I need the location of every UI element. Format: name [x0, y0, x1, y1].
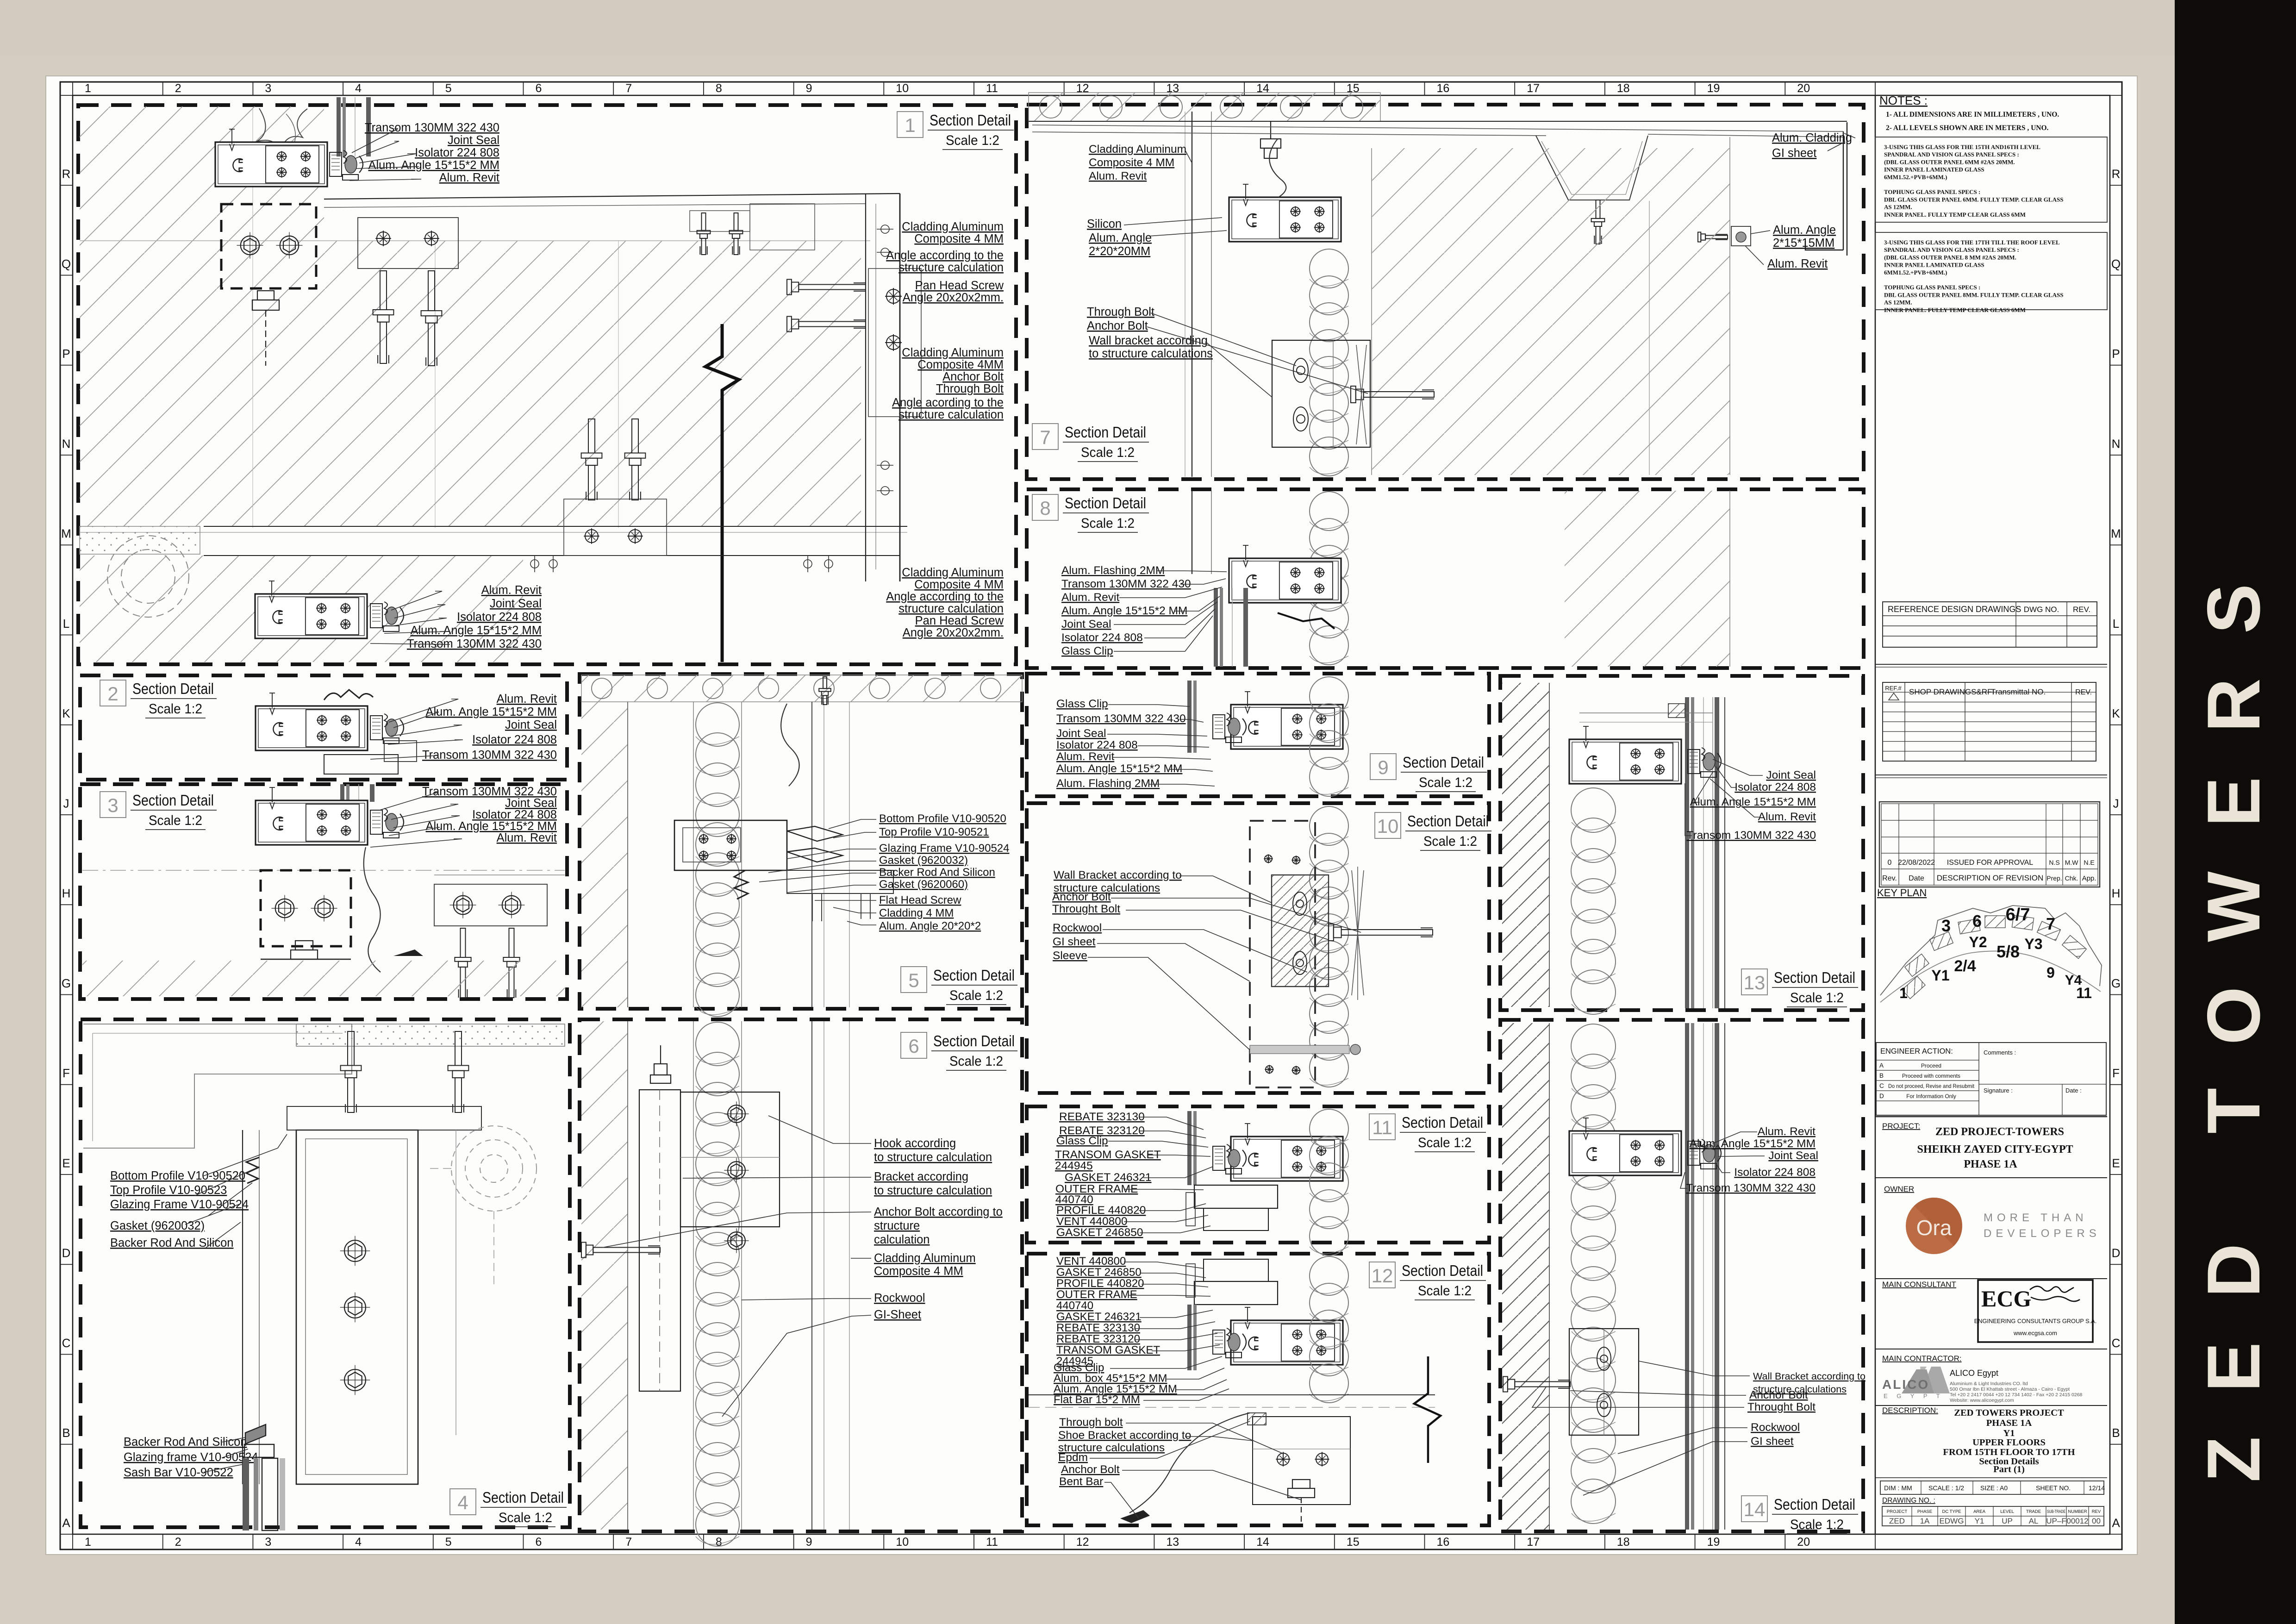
box12 floor lines	[1029, 1394, 1435, 1395]
svg-text:GI-Sheet: GI-Sheet	[874, 1308, 921, 1321]
box7 hanging bolt top	[1260, 121, 1281, 158]
svg-text:EDWG: EDWG	[1940, 1517, 1964, 1525]
box4 bottom sash cluster	[244, 1424, 274, 1457]
svg-text:Transom 130MM 322 430: Transom 130MM 322 430	[1686, 1182, 1816, 1194]
detail label 5	[901, 967, 1017, 1005]
box7 mullion	[1229, 184, 1341, 242]
box10 labels a	[1054, 869, 1182, 894]
svg-text:Gasket (9620032): Gasket (9620032)	[110, 1219, 205, 1232]
svg-text:7: 7	[625, 1536, 632, 1549]
svg-text:ENGINEERING CONSULTANTS GROUP: ENGINEERING CONSULTANTS GROUP S.A.	[1974, 1318, 2097, 1324]
svg-text:18: 18	[1617, 82, 1630, 95]
svg-text:6: 6	[536, 82, 542, 95]
box4 hex bolts	[340, 1236, 370, 1266]
box11 lbl b	[1056, 1135, 1108, 1147]
svg-text:Isolator 224 808: Isolator 224 808	[1734, 1166, 1816, 1179]
svg-text:Flat Bar 15*2 MM: Flat Bar 15*2 MM	[1054, 1393, 1140, 1406]
svg-text:1: 1	[1899, 985, 1908, 1001]
box14 rockwool	[1571, 1024, 1616, 1524]
svg-text:Cladding Aluminum: Cladding Aluminum	[902, 566, 1004, 579]
box3 wire curve	[364, 847, 381, 972]
svg-text:10: 10	[896, 82, 909, 95]
svg-text:Section Detail: Section Detail	[933, 967, 1015, 984]
box7 top slab band	[1029, 93, 1380, 121]
svg-text:6: 6	[1972, 912, 1982, 931]
box6 label gisheet	[874, 1308, 921, 1321]
svg-text:Alum. Revit: Alum. Revit	[1061, 591, 1119, 604]
box7 silicon	[1087, 218, 1122, 231]
box14 bracket	[1569, 1329, 1639, 1435]
svg-text:structure: structure	[874, 1219, 920, 1232]
detail label 3	[100, 792, 217, 830]
svg-text:structure calculation: structure calculation	[898, 408, 1004, 421]
svg-text:5: 5	[445, 1536, 452, 1549]
svg-text:Scale 1:2: Scale 1:2	[149, 813, 202, 828]
reference design drawings table	[1883, 602, 2097, 647]
svg-text:14: 14	[1256, 1536, 1269, 1549]
box6 left wall hatch	[581, 1021, 628, 1530]
box1 right pan head screws	[787, 280, 866, 295]
box9 labels a	[1056, 698, 1186, 725]
box11 lbl d	[1065, 1171, 1152, 1184]
box1 bottom labels	[407, 584, 542, 650]
svg-text:R: R	[62, 167, 71, 181]
box3 labels	[422, 785, 557, 844]
svg-text:REBATE 323130: REBATE 323130	[1056, 1322, 1140, 1334]
box13 glazing verticals	[1685, 697, 1719, 1008]
box1 dashed circle	[107, 536, 189, 617]
svg-text:Section Detail: Section Detail	[930, 112, 1011, 129]
box13 lbl e	[1686, 829, 1816, 842]
svg-text:Hook according: Hook according	[874, 1137, 956, 1150]
svg-text:KEY PLAN: KEY PLAN	[1877, 887, 1927, 899]
box8 labels	[1061, 564, 1191, 657]
box12 lower b	[1058, 1429, 1191, 1454]
box12 lower a	[1059, 1416, 1123, 1429]
info strip DIM/SCALE/SIZE	[1880, 1481, 2105, 1494]
svg-text:Wall Bracket according to: Wall Bracket according to	[1753, 1371, 1865, 1382]
box14 lower e	[1751, 1435, 1794, 1448]
svg-text:to structure calculation: to structure calculation	[874, 1184, 992, 1197]
box14 glazing verticals	[1685, 1023, 1719, 1530]
svg-text:Ora: Ora	[1916, 1216, 1952, 1240]
svg-text:PHASE 1A: PHASE 1A	[1986, 1418, 2032, 1428]
svg-text:Joint Seal: Joint Seal	[448, 134, 499, 147]
svg-text:Transom 130MM 322 430: Transom 130MM 322 430	[1056, 712, 1186, 725]
svg-text:15: 15	[1347, 1536, 1360, 1549]
svg-text:TRANSOM GASKET: TRANSOM GASKET	[1055, 1149, 1161, 1161]
svg-text:Transom 130MM 322 430: Transom 130MM 322 430	[1686, 829, 1816, 842]
glass spec text 2	[1884, 239, 2063, 313]
svg-text:3-USING THIS GLASS FOR THE 15T: 3-USING THIS GLASS FOR THE 15TH AND16TH …	[1884, 144, 2040, 150]
svg-text:Scale 1:2: Scale 1:2	[946, 133, 999, 148]
box3 flashing tip	[393, 949, 423, 956]
svg-text:Flat Head Screw: Flat Head Screw	[879, 894, 961, 906]
svg-text:REF.#: REF.#	[1885, 685, 1902, 692]
box12 shoe bracket	[1253, 1417, 1350, 1505]
svg-text:UP: UP	[2002, 1517, 2013, 1525]
svg-text:9: 9	[806, 82, 812, 95]
glass spec box 1	[1875, 137, 2107, 222]
box5 labels c	[879, 894, 981, 932]
box7 wall bracket	[1272, 340, 1370, 447]
svg-text:to structure calculations: to structure calculations	[1089, 347, 1213, 360]
svg-text:00: 00	[2092, 1517, 2101, 1525]
svg-text:Composite 4 MM: Composite 4 MM	[1089, 156, 1174, 169]
box1 lower nut	[252, 291, 279, 366]
svg-text:REV.: REV.	[2075, 688, 2092, 696]
svg-text:REFERENCE DESIGN DRAWINGS: REFERENCE DESIGN DRAWINGS	[1888, 605, 2021, 614]
svg-text:17: 17	[1527, 1536, 1540, 1549]
inner border frame	[73, 95, 2110, 1534]
svg-text:Alum. Angle 15*15*2 MM: Alum. Angle 15*15*2 MM	[368, 159, 500, 172]
svg-text:SHEET NO.: SHEET NO.	[2036, 1484, 2071, 1492]
box4 labels a	[110, 1169, 249, 1211]
svg-text:Chk.: Chk.	[2065, 874, 2078, 882]
section 13 box	[1500, 676, 1863, 1010]
box6 label rockwool	[874, 1292, 925, 1305]
box1 glazing bars top	[337, 97, 371, 156]
svg-text:12/14: 12/14	[2089, 1484, 2105, 1492]
svg-text:A: A	[62, 1516, 70, 1530]
detail label 9	[1370, 754, 1487, 792]
box11 labels a	[1059, 1111, 1145, 1137]
box14 mullion	[1569, 1118, 1681, 1175]
svg-text:Alum. Angle 15*15*2 MM: Alum. Angle 15*15*2 MM	[411, 624, 542, 637]
svg-text:Glazing Frame V10-90524: Glazing Frame V10-90524	[110, 1198, 249, 1211]
svg-text:DIM : MM: DIM : MM	[1884, 1484, 1912, 1492]
box10 anchor bolt	[1329, 924, 1433, 941]
section 3 box	[80, 784, 567, 999]
svg-text:12: 12	[1076, 1536, 1089, 1549]
svg-text:Scale 1:2: Scale 1:2	[1790, 1517, 1844, 1532]
glass spec text 1	[1884, 144, 2063, 218]
svg-text:Alum. Revit: Alum. Revit	[1758, 811, 1816, 823]
box1 right cladding return	[865, 194, 866, 581]
svg-text:Scale 1:2: Scale 1:2	[1418, 1135, 1472, 1150]
svg-text:12: 12	[1372, 1265, 1393, 1287]
svg-text:Angle 20x20x2mm.: Angle 20x20x2mm.	[903, 291, 1004, 304]
box1 faint cad grid verticals	[252, 107, 253, 528]
svg-text:Tel +20 2 2417 0044 +20 12 73: Tel +20 2 2417 0044 +20 12 734 1402 - Fa…	[1950, 1392, 2083, 1398]
svg-text:Transom 130MM 322 430: Transom 130MM 322 430	[422, 749, 557, 762]
svg-text:A: A	[2112, 1516, 2120, 1530]
svg-text:Scale 1:2: Scale 1:2	[499, 1510, 552, 1525]
svg-text:Alum. Revit: Alum. Revit	[1767, 257, 1828, 270]
box4 labels b	[110, 1219, 233, 1249]
svg-text:(DBL GLASS OUTER PANEL 6MM #2A: (DBL GLASS OUTER PANEL 6MM #2AS 20MM.	[1884, 158, 2015, 165]
box14 lbl c	[1768, 1149, 1818, 1162]
svg-text:GI sheet: GI sheet	[1053, 936, 1096, 948]
box7 revit label	[1767, 257, 1828, 270]
box9 labels c	[1056, 762, 1182, 775]
box14 lbl a	[1758, 1125, 1816, 1138]
box5 top anchor	[819, 677, 831, 705]
svg-text:0: 0	[1888, 859, 1892, 867]
box13 lbl b	[1734, 781, 1816, 793]
svg-text:Bracket according: Bracket according	[874, 1170, 968, 1183]
svg-text:Y1: Y1	[1975, 1517, 1984, 1525]
box2 gasket squiggle	[324, 690, 373, 700]
svg-text:Pan Head Screw: Pan Head Screw	[915, 614, 1004, 627]
svg-text:Backer Rod And Silicon: Backer Rod And Silicon	[879, 866, 995, 879]
box6 GI sheet lines	[811, 1021, 812, 1530]
svg-text:6: 6	[908, 1035, 919, 1057]
box1 r3	[903, 279, 1004, 304]
svg-text:B: B	[62, 1426, 70, 1440]
svg-text:Bent Bar: Bent Bar	[1059, 1475, 1103, 1488]
box14 wall hatch	[1502, 1023, 1549, 1530]
box6 anchor bolt horizontal	[581, 1243, 660, 1258]
svg-text:Joint Seal: Joint Seal	[505, 797, 557, 810]
svg-text:1: 1	[85, 1536, 91, 1549]
svg-text:Alum. Revit: Alum. Revit	[1089, 170, 1147, 182]
box4 dotted circles	[451, 1126, 537, 1211]
svg-text:For Information Only: For Information Only	[1906, 1093, 1956, 1099]
svg-text:ZED PROJECT-TOWERS: ZED PROJECT-TOWERS	[1935, 1126, 2064, 1138]
box1 inner dashed bolt box	[221, 204, 316, 288]
svg-text:Joint Seal: Joint Seal	[505, 718, 557, 731]
box1 wavy membrane	[256, 108, 307, 152]
svg-text:244945: 244945	[1055, 1160, 1093, 1172]
box6 top nut	[650, 1045, 671, 1083]
svg-text:ZED: ZED	[1889, 1517, 1905, 1525]
svg-text:GASKET 246321: GASKET 246321	[1065, 1171, 1152, 1184]
svg-text:2: 2	[107, 683, 118, 705]
svg-text:8: 8	[716, 82, 722, 95]
svg-text:SHEIKH ZAYED CITY-EGYPT: SHEIKH ZAYED CITY-EGYPT	[1917, 1143, 2073, 1156]
svg-text:K: K	[2112, 706, 2120, 720]
box14 lbl e	[1686, 1182, 1816, 1194]
section 4 box	[81, 1019, 570, 1527]
svg-text:Glass Clip: Glass Clip	[1061, 645, 1113, 657]
svg-text:Sleeve: Sleeve	[1053, 949, 1087, 962]
box2 labels b	[422, 733, 557, 762]
svg-text:Alum. Angle 15*15*2 MM: Alum. Angle 15*15*2 MM	[1690, 796, 1816, 808]
svg-text:Alum. Revit: Alum. Revit	[1758, 1125, 1816, 1138]
svg-text:Q: Q	[62, 257, 71, 271]
ALICO logo	[1902, 1367, 1950, 1393]
box7 left labels a	[1089, 143, 1186, 182]
svg-text:Rockwool: Rockwool	[1053, 922, 1102, 934]
box13 lbl a	[1766, 769, 1816, 781]
svg-text:REV: REV	[2092, 1509, 2101, 1514]
svg-text:M: M	[2111, 527, 2121, 541]
box5 top ceiling band	[581, 675, 1022, 702]
section 9 box	[1027, 674, 1489, 796]
svg-text:Epdm: Epdm	[1058, 1451, 1088, 1464]
key plan drawing	[1880, 906, 2102, 1002]
svg-text:18: 18	[1617, 1536, 1630, 1549]
svg-text:Anchor Bolt: Anchor Bolt	[1052, 891, 1111, 903]
box12 wire curve	[1129, 1413, 1250, 1513]
svg-text:to structure calculation: to structure calculation	[874, 1151, 992, 1164]
box14 lower a	[1753, 1371, 1865, 1395]
svg-text:16: 16	[1437, 1536, 1450, 1549]
svg-text:Comments :: Comments :	[1984, 1049, 2016, 1056]
svg-text:J: J	[63, 796, 69, 810]
column grid numbers	[73, 82, 1875, 1549]
box9 mullion	[1231, 692, 1343, 749]
svg-text:Scale 1:2: Scale 1:2	[1790, 990, 1844, 1006]
svg-text:Composite 4 MM: Composite 4 MM	[874, 1265, 963, 1278]
svg-text:Joint Seal: Joint Seal	[1768, 1149, 1818, 1162]
svg-text:Gasket (9620060): Gasket (9620060)	[879, 878, 968, 891]
box1 hatch below band	[80, 556, 523, 662]
svg-text:PROJECT: PROJECT	[1887, 1509, 1908, 1514]
svg-text:Alum. Angle 15*15*2 MM: Alum. Angle 15*15*2 MM	[1061, 605, 1187, 617]
svg-text:4: 4	[355, 1536, 362, 1549]
svg-text:ALICO: ALICO	[1882, 1377, 1929, 1392]
svg-text:Anchor Bolt: Anchor Bolt	[1087, 319, 1148, 332]
svg-text:5/8: 5/8	[1997, 942, 2020, 961]
box7 roof wedge	[1032, 125, 1843, 137]
svg-text:structure calculation: structure calculation	[898, 602, 1004, 615]
panel separator 1	[1875, 664, 2107, 665]
svg-text:PHASE: PHASE	[1917, 1509, 1932, 1514]
svg-text:Scale 1:2: Scale 1:2	[1418, 1283, 1472, 1299]
box5 rockwool	[696, 703, 739, 1017]
detail label 10	[1375, 812, 1491, 850]
svg-text:ISSUED FOR APPROVAL: ISSUED FOR APPROVAL	[1947, 859, 2034, 867]
svg-text:www.ecgsa.com: www.ecgsa.com	[2013, 1330, 2057, 1337]
box3 right bracket	[434, 884, 547, 926]
box7 alum angle clip	[1731, 226, 1751, 246]
svg-text:Backer Rod And Silicon: Backer Rod And Silicon	[110, 1237, 233, 1249]
svg-text:Joint Seal: Joint Seal	[1061, 618, 1111, 631]
svg-text:Throught Bolt: Throught Bolt	[1052, 903, 1120, 915]
svg-text:TOPHUNG GLASS PANEL SPECS :: TOPHUNG GLASS PANEL SPECS :	[1884, 188, 1980, 195]
svg-text:E G Y P T: E G Y P T	[1884, 1393, 1944, 1399]
svg-text:Anchor Bolt: Anchor Bolt	[1061, 1463, 1120, 1476]
svg-text:Alum. Angle 20*20*2: Alum. Angle 20*20*2	[879, 920, 981, 932]
svg-text:Scale 1:2: Scale 1:2	[149, 701, 202, 717]
svg-text:4: 4	[355, 82, 362, 95]
box4 labels c	[124, 1436, 258, 1479]
svg-text:Alum. Revit: Alum. Revit	[497, 831, 557, 844]
svg-text:9: 9	[806, 1536, 812, 1549]
svg-text:AL: AL	[2029, 1517, 2039, 1525]
svg-text:M: M	[61, 527, 71, 541]
svg-text:Cladding Aluminum: Cladding Aluminum	[902, 220, 1004, 233]
box1 clamp cluster	[330, 150, 363, 180]
svg-text:H: H	[2112, 887, 2121, 900]
box8 flashing z	[1278, 613, 1335, 629]
svg-text:6: 6	[536, 1536, 542, 1549]
svg-text:L: L	[63, 617, 69, 631]
svg-text:Y1: Y1	[1931, 967, 1949, 984]
svg-text:Scale 1:2: Scale 1:2	[1419, 775, 1472, 790]
box12 glazing	[1187, 1305, 1197, 1370]
svg-text:Section Detail: Section Detail	[1774, 969, 1855, 986]
svg-text:B: B	[1879, 1072, 1884, 1079]
box8 hatch right	[1565, 491, 1730, 667]
svg-text:Silicon: Silicon	[1087, 218, 1122, 231]
svg-text:Website: www.alicoegypt.com: Website: www.alicoegypt.com	[1950, 1398, 2014, 1403]
box12 epdm pad	[1248, 1413, 1266, 1425]
section 10 box	[1027, 803, 1489, 1093]
svg-text:SPANDRAL AND VISION GLASS PANE: SPANDRAL AND VISION GLASS PANEL SPECS :	[1884, 246, 2019, 253]
svg-text:Shoe Bracket according to: Shoe Bracket according to	[1058, 1429, 1191, 1442]
box1 break zigzag	[705, 324, 739, 662]
svg-text:Signature :: Signature :	[1984, 1087, 2013, 1094]
box6 rockwool	[696, 1022, 739, 1546]
svg-text:Proceed: Proceed	[1921, 1062, 1941, 1069]
svg-text:Alum. Angle: Alum. Angle	[1773, 224, 1836, 237]
svg-text:Sash Bar V10-90522: Sash Bar V10-90522	[124, 1466, 233, 1479]
box13 wall hatch	[1502, 683, 1549, 1007]
box10 labels b	[1052, 891, 1120, 915]
box13 top slab lines	[1579, 712, 1713, 713]
svg-text:INNER PANEL. FULLY TEMP CLEAR: INNER PANEL. FULLY TEMP CLEAR GLASS 6MM	[1884, 211, 2026, 218]
box4 right vert line	[455, 1130, 456, 1435]
box4 top slab speckle band	[296, 1024, 565, 1046]
svg-text:TRADE: TRADE	[2026, 1509, 2041, 1514]
svg-text:Alum. Revit: Alum. Revit	[481, 584, 542, 597]
svg-text:9: 9	[2046, 964, 2055, 981]
svg-text:Alum. Flashing 2MM: Alum. Flashing 2MM	[1061, 564, 1165, 577]
box7 angle labels	[1773, 224, 1836, 250]
svg-text:PROFILE 440820: PROFILE 440820	[1056, 1204, 1146, 1217]
svg-text:Y1: Y1	[2003, 1428, 2015, 1438]
svg-text:Angle 20x20x2mm.: Angle 20x20x2mm.	[903, 626, 1004, 639]
svg-text:11: 11	[986, 82, 998, 95]
svg-text:13: 13	[1744, 972, 1766, 993]
svg-text:3: 3	[1941, 916, 1951, 935]
row grid letters	[60, 95, 2122, 1534]
box1 band bracket B small	[690, 211, 750, 231]
svg-text:Section Detail: Section Detail	[132, 792, 214, 809]
svg-text:Isolator 224 808: Isolator 224 808	[415, 146, 499, 159]
svg-text:VENT 440800: VENT 440800	[1056, 1255, 1126, 1268]
svg-text:GI sheet: GI sheet	[1751, 1435, 1794, 1448]
box1 r1	[902, 220, 1004, 245]
svg-text:C: C	[62, 1336, 71, 1350]
svg-text:2- ALL LEVELS SHOWN ARE IN MET: 2- ALL LEVELS SHOWN ARE IN METERS , UNO.	[1886, 124, 2049, 132]
svg-text:1- ALL DIMENSIONS ARE IN MILLI: 1- ALL DIMENSIONS ARE IN MILLIMETERS , U…	[1886, 111, 2059, 119]
svg-text:Section Detail: Section Detail	[132, 680, 214, 697]
svg-text:Section Detail: Section Detail	[1403, 754, 1484, 771]
svg-text:5: 5	[908, 969, 919, 991]
svg-text:Scale 1:2: Scale 1:2	[1423, 834, 1477, 849]
shop drawings table	[1883, 682, 2096, 761]
panel separator 2	[1875, 775, 2107, 775]
svg-text:Part (1): Part (1)	[1993, 1464, 2025, 1474]
svg-text:Transmittal NO.: Transmittal NO.	[1991, 687, 2046, 696]
box7 bracket label	[1089, 334, 1213, 360]
svg-text:Transom 130MM 322 430: Transom 130MM 322 430	[1061, 578, 1191, 590]
svg-text:DESCRIPTION OF REVISION: DESCRIPTION OF REVISION	[1937, 874, 2043, 882]
right panel divider	[1875, 95, 1876, 1534]
box11 lbl f	[1056, 1204, 1146, 1239]
box1 concrete hatch upper-left	[80, 106, 861, 526]
box1 mullion	[215, 129, 327, 187]
ECG logo	[1978, 1280, 2093, 1342]
svg-text:Anchor Bolt: Anchor Bolt	[942, 370, 1004, 383]
svg-text:9: 9	[1378, 756, 1388, 778]
svg-text:Alum. Angle 15*15*2 MM: Alum. Angle 15*15*2 MM	[426, 706, 557, 718]
box10 label rock	[1053, 922, 1102, 934]
svg-text:MORE THAN: MORE THAN	[1984, 1212, 2088, 1224]
svg-text:Composite 4 MM: Composite 4 MM	[914, 578, 1004, 591]
svg-text:1: 1	[85, 82, 91, 95]
box11 glazing	[1187, 1111, 1197, 1185]
svg-text:F: F	[2112, 1066, 2120, 1080]
svg-text:OWNER: OWNER	[1884, 1185, 1914, 1193]
svg-text:L: L	[2113, 617, 2119, 631]
box8 mullion	[1229, 545, 1341, 603]
box11 mullion	[1231, 1124, 1343, 1181]
